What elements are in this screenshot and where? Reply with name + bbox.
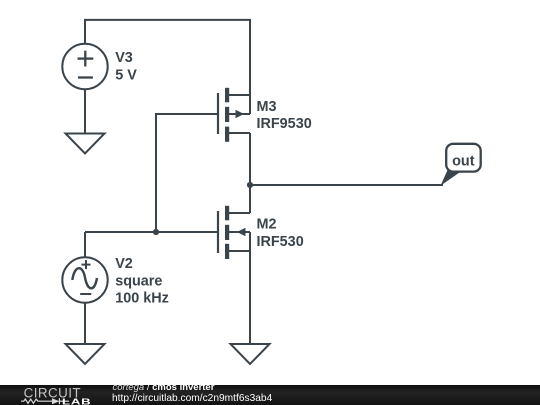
ground for M2: [231, 344, 270, 364]
label M3: [257, 99, 312, 132]
wire V2 minus to ground: [84, 303, 86, 345]
wire V2 plus stub: [84, 232, 86, 258]
svg-text:V3: V3: [115, 50, 133, 66]
wire top rail V3 to M3 source: [85, 20, 250, 95]
transistor M2 NMOS: [218, 206, 250, 259]
svg-text:out: out: [452, 154, 475, 170]
wire M3 source-body tie: [249, 95, 251, 114]
wire output to flag: [250, 184, 443, 186]
node gate junction: [153, 229, 159, 235]
svg-text:IRF9530: IRF9530: [257, 116, 312, 132]
transistor M3 PMOS: [218, 88, 250, 142]
svg-text:M2: M2: [257, 217, 277, 233]
label V3 value: [115, 50, 137, 84]
wire M3 drain to M2 drain: [249, 133, 251, 213]
label V2 value: [115, 256, 169, 307]
footer bar: [0, 385, 540, 405]
schematic credit line 2: [112, 393, 272, 404]
schematic credit line 1: [113, 383, 215, 394]
label M2: [257, 217, 304, 250]
svg-text:IRF530: IRF530: [257, 234, 304, 250]
ground for V2: [66, 344, 105, 364]
svg-text:square: square: [115, 273, 162, 289]
CircuitLab logo: [0, 384, 110, 405]
svg-text:M3: M3: [257, 99, 277, 115]
node out flag: [441, 144, 481, 186]
wire V2 to M2 gate: [85, 231, 217, 233]
ground for V3: [66, 134, 105, 154]
wire M2 body-source tie: [249, 232, 251, 252]
svg-text:V2: V2: [115, 256, 133, 272]
node out junction: [247, 182, 253, 188]
wire M3 gate to M2 gate net: [156, 114, 217, 232]
voltage source V3: [62, 44, 107, 89]
svg-text:5 V: 5 V: [115, 68, 137, 84]
wire M2 source to ground: [249, 252, 251, 344]
wire V3 minus to ground: [84, 89, 86, 134]
svg-text:LAB: LAB: [62, 397, 91, 405]
voltage source V2: [62, 257, 107, 302]
svg-text:100 kHz: 100 kHz: [115, 291, 169, 307]
